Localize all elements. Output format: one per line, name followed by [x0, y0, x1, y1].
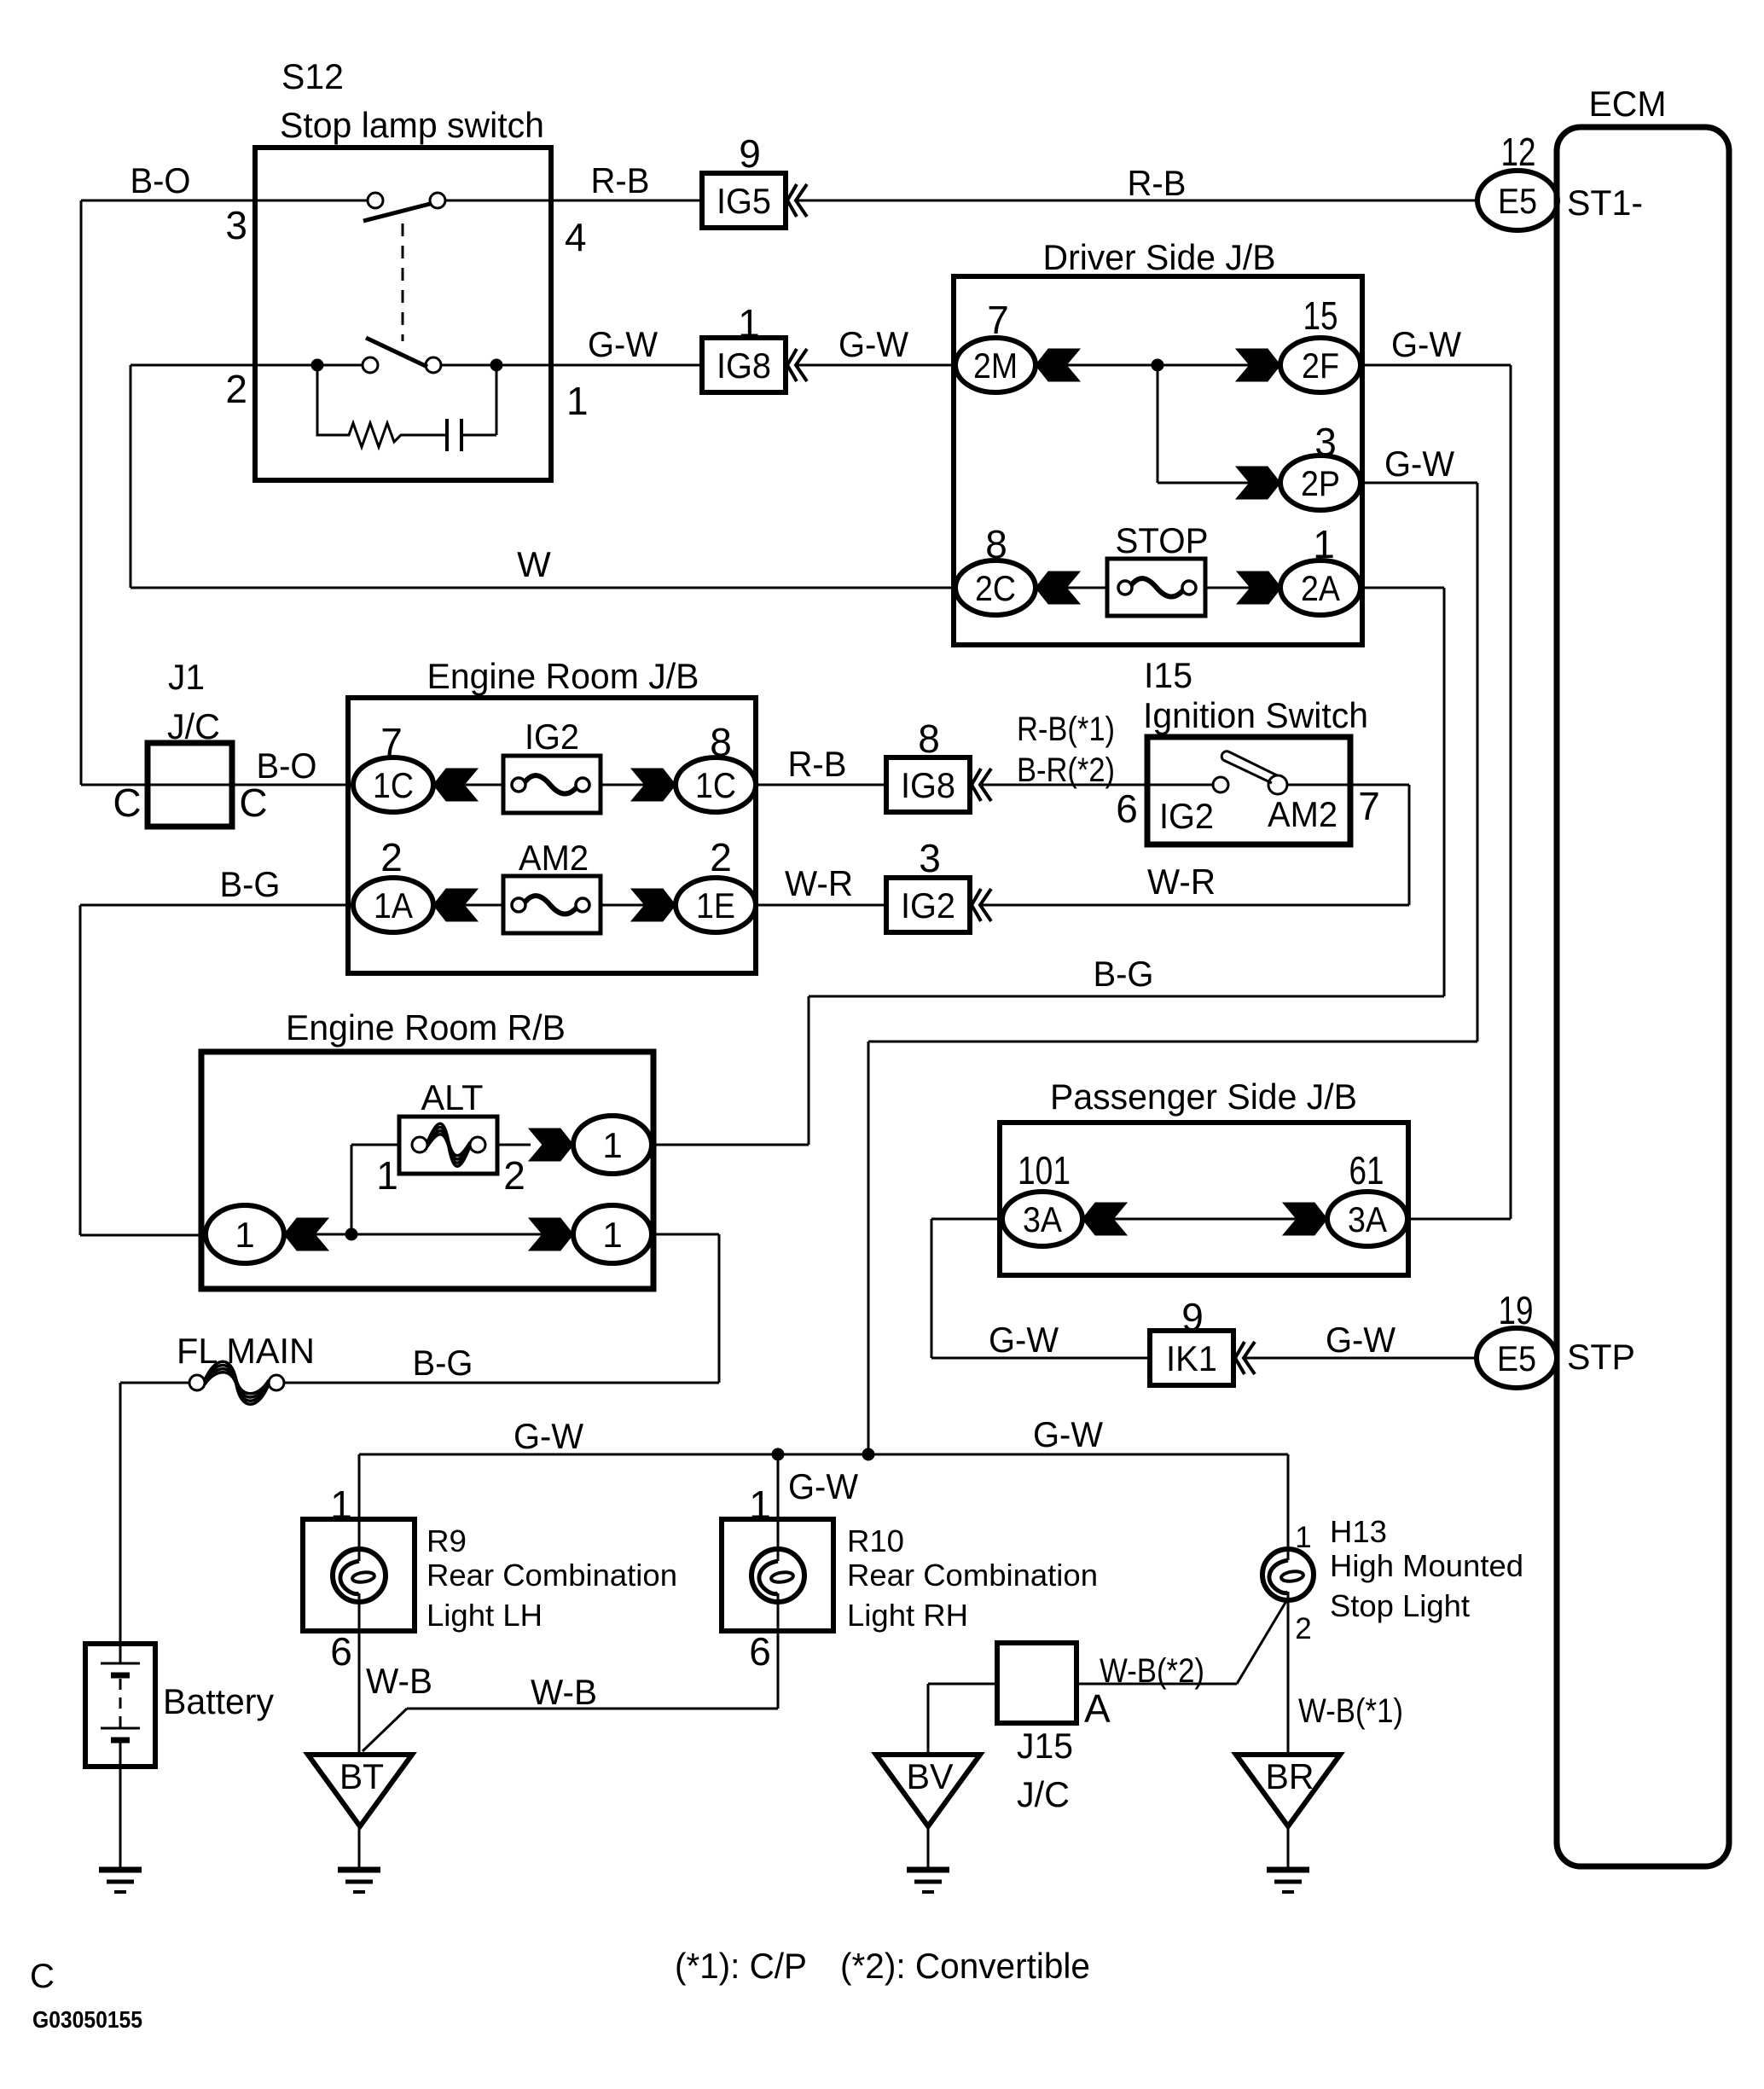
connector oval 2C: [955, 560, 1036, 615]
wire G-W 2F to vertical x1771: [1361, 364, 1511, 367]
IG8 connector box: [702, 338, 786, 392]
connector oval 3A right: [1327, 1192, 1407, 1246]
svg-text:2F: 2F: [1302, 345, 1339, 386]
svg-text:2: 2: [503, 1153, 525, 1198]
svg-text:R9: R9: [426, 1523, 467, 1558]
wire H13 pin1 drop to bulb: [1287, 1454, 1290, 1560]
svg-text:Engine Room R/B: Engine Room R/B: [286, 1007, 566, 1047]
svg-text:BR: BR: [1266, 1756, 1314, 1796]
ignition switch I15 box: [1147, 737, 1350, 844]
svg-text:B-G: B-G: [220, 864, 281, 904]
svg-text:W-B(*1): W-B(*1): [1298, 1692, 1403, 1730]
R10 rear combination light box: [722, 1519, 833, 1631]
wire ALT fuse pin2 to arrow: [497, 1144, 531, 1146]
svg-text:Driver Side J/B: Driver Side J/B: [1043, 237, 1276, 277]
ignition switch AM2 contact circle: [1268, 775, 1287, 794]
S12 upper switch lever: [363, 204, 430, 221]
wire R10 bulb to W-B row: [777, 1593, 780, 1709]
wire battery negative to ground: [119, 1740, 122, 1870]
wire R9 bulb to BT: [358, 1593, 361, 1755]
svg-text:3A: 3A: [1023, 1199, 1062, 1239]
svg-text:IG8: IG8: [717, 345, 771, 386]
svg-text:101: 101: [1018, 1148, 1071, 1192]
junction dot S12 pin1 resistor branch: [490, 359, 502, 371]
svg-text:ECM: ECM: [1589, 84, 1667, 124]
svg-text:2: 2: [380, 835, 403, 879]
fuse STOP element: [1118, 581, 1132, 595]
svg-text:W-R: W-R: [785, 863, 853, 903]
svg-text:C: C: [239, 780, 267, 825]
svg-text:(*1): C/P: (*1): C/P: [675, 1946, 807, 1986]
wire S12 pin 4 to IG5 connector (R-B): [444, 200, 702, 202]
IG2 middle chevron: [972, 889, 991, 921]
ground symbol BT: [338, 1867, 380, 1873]
svg-text:R-B(*1): R-B(*1): [1017, 711, 1115, 748]
wire B-G FL MAIN row: [120, 1382, 197, 1384]
wire B-O through junction connector J1 to Engine Room J/B 1C: [81, 784, 393, 786]
ECM connector E5 pin19 oval: [1477, 1328, 1557, 1388]
svg-text:15: 15: [1303, 293, 1338, 338]
wire W-B from R9 to R10 pin 6: [407, 1708, 778, 1710]
wire W-R from IG2 connector to ignition pin 7: [981, 904, 1409, 907]
arrow into 1C right: [631, 769, 676, 801]
fuse AM2 box: [503, 876, 601, 933]
svg-text:2: 2: [225, 367, 247, 411]
arrow into 3A right: [1283, 1203, 1327, 1235]
IG8 middle chevron: [972, 769, 991, 801]
svg-text:2M: 2M: [973, 345, 1018, 386]
wire R10 pin1 drop to bulb: [777, 1454, 780, 1561]
svg-text:3: 3: [225, 203, 247, 247]
svg-text:G-W: G-W: [514, 1416, 583, 1456]
wire Passenger J/B 3A pin101 out to left: [931, 1218, 1042, 1221]
Driver Side J/B box: [954, 276, 1362, 645]
wire B-O vertical down left side: [80, 200, 83, 785]
connector oval 3A left: [1002, 1192, 1082, 1246]
ground symbol BR: [1267, 1867, 1309, 1873]
svg-text:B-O: B-O: [131, 160, 191, 200]
svg-text:(*2): Convertible: (*2): Convertible: [840, 1946, 1090, 1986]
connector oval 2A: [1280, 560, 1361, 615]
svg-text:3A: 3A: [1348, 1199, 1387, 1239]
H13 bulb: [1262, 1549, 1314, 1600]
wire B-G from x94 to Engine J/B 1A: [80, 904, 393, 907]
wire BT triangle to ground: [358, 1826, 361, 1870]
wire BV up and into J15: [927, 1684, 930, 1755]
wire BV triangle to ground: [927, 1826, 930, 1870]
svg-text:E5: E5: [1497, 1338, 1536, 1378]
junction dot ALT branch in Engine R/B: [345, 1228, 357, 1240]
svg-text:G03050155: G03050155: [32, 2006, 142, 2033]
svg-text:J/C: J/C: [1017, 1774, 1070, 1814]
wire G-W from IG8 to Driver Side J/B 2M: [797, 364, 995, 367]
svg-text:STOP: STOP: [1116, 520, 1209, 560]
R9 bulb: [333, 1549, 386, 1602]
wire G-W vertical x1732 down to y1221: [1477, 483, 1479, 1042]
wire Ignition Switch AM2 contact to pin 7 out: [1285, 784, 1409, 786]
wire G-W 2P to vertical x1732: [1361, 482, 1477, 485]
svg-text:IG5: IG5: [717, 181, 771, 221]
connector oval 1C left: [353, 757, 433, 812]
wire S12 pin 1 row inside switch: [255, 364, 369, 367]
fusible link ALT element: [412, 1137, 427, 1152]
arrow into 2P: [1236, 467, 1280, 499]
wire Passenger J/B 3A pin61 to vertical x1771: [1407, 1218, 1511, 1221]
svg-text:ALT: ALT: [421, 1077, 484, 1117]
R9 rear combination light box: [303, 1519, 415, 1631]
svg-text:C: C: [30, 1958, 55, 1995]
svg-text:Stop Light: Stop Light: [1330, 1588, 1470, 1623]
wire H13 bulb to BR: [1287, 1592, 1290, 1755]
svg-text:12: 12: [1501, 130, 1536, 174]
svg-text:A: A: [1084, 1686, 1111, 1731]
svg-text:G-W: G-W: [1326, 1320, 1396, 1360]
battery box: [85, 1644, 155, 1767]
svg-text:6: 6: [330, 1629, 352, 1674]
svg-text:IG8: IG8: [901, 765, 955, 805]
svg-text:G-W: G-W: [1384, 444, 1454, 484]
svg-text:W-B: W-B: [366, 1661, 432, 1701]
fuse STOP box: [1107, 559, 1205, 616]
svg-text:8: 8: [918, 717, 940, 761]
arrow into 2A: [1237, 572, 1281, 604]
connector oval 1 lower-left in R/B: [206, 1205, 284, 1263]
arrow into 2C: [1036, 572, 1080, 604]
wire vertical x948 down to ALT output row: [808, 996, 810, 1145]
wire vertical x153 down to W row: [130, 365, 132, 588]
svg-text:1C: 1C: [695, 765, 736, 805]
wire G-W from S12 pin 1 to IG8 connector: [551, 364, 702, 367]
svg-text:J1: J1: [168, 657, 205, 697]
svg-text:Ignition Switch: Ignition Switch: [1143, 695, 1368, 735]
wire G-W vertical x1092 down to IK1 row: [931, 1219, 933, 1358]
svg-text:B-R(*2): B-R(*2): [1017, 751, 1115, 789]
svg-text:W: W: [517, 544, 551, 584]
junction dot G-W row at ECM STP branch: [862, 1448, 874, 1460]
wire vertical x1693 down to B-G row y1168: [1443, 588, 1446, 996]
S12 stop lamp switch box: [255, 148, 551, 480]
svg-text:G-W: G-W: [788, 1466, 858, 1506]
wire R-B from IG5 to ECM E5 pin 12: [797, 200, 1478, 202]
svg-text:Light RH: Light RH: [847, 1598, 968, 1633]
wire Engine R/B lower right oval out: [652, 1233, 719, 1236]
wire B-O from node to S12 pin 3 and into switch: [81, 200, 368, 202]
connector oval 1A: [353, 878, 433, 932]
connector oval 1 upper in R/B: [573, 1116, 652, 1174]
wire battery feed vertical x141: [119, 1383, 122, 1663]
svg-text:2C: 2C: [975, 568, 1016, 608]
svg-text:1: 1: [602, 1125, 622, 1165]
arrow into 1A: [433, 889, 478, 921]
IK1 connector box: [1150, 1331, 1233, 1385]
wire junction drop to 2P: [1157, 365, 1159, 483]
wire S12 pin 2 to left branch: [131, 364, 255, 367]
svg-text:Passenger Side J/B: Passenger Side J/B: [1050, 1076, 1357, 1117]
wire 2A out to vertical x1693: [1361, 587, 1444, 589]
S12 lower switch lever: [366, 338, 427, 367]
svg-text:1: 1: [376, 1153, 398, 1198]
svg-text:W-R: W-R: [1147, 862, 1216, 902]
junction connector J1 box: [148, 743, 232, 827]
wire vertical x1652 from ignition pin7 to W-R row: [1408, 785, 1411, 905]
svg-text:B-O: B-O: [257, 746, 317, 786]
svg-text:G-W: G-W: [1391, 324, 1461, 364]
wire ALT output row to Engine Room R/B oval: [612, 1144, 809, 1146]
IG5 chevron: [787, 184, 807, 217]
junction dot S12 pin2 resistor branch: [311, 359, 323, 371]
wire Passenger J/B internal 3A to 3A: [1042, 1218, 1367, 1221]
svg-text:R-B: R-B: [591, 160, 650, 200]
wire B-G into Engine Room R/B lower oval: [80, 1234, 245, 1237]
svg-text:High Mounted: High Mounted: [1330, 1548, 1523, 1583]
svg-text:S12: S12: [281, 56, 344, 96]
svg-text:BV: BV: [907, 1756, 954, 1796]
IG2 middle connector box: [886, 878, 970, 932]
svg-text:Engine Room J/B: Engine Room J/B: [427, 656, 699, 696]
svg-text:ST1-: ST1-: [1567, 183, 1643, 223]
wire W-R Engine J/B 1E out to IG2 connector: [756, 904, 887, 907]
svg-text:2: 2: [1295, 1612, 1311, 1645]
wire G-W vertical x1771 down to Passenger J/B 3A pin 61: [1510, 365, 1512, 1219]
svg-text:Rear Combination: Rear Combination: [426, 1558, 677, 1593]
wire R9 pin1 drop to bulb: [358, 1454, 361, 1561]
svg-text:6: 6: [749, 1629, 771, 1674]
wire G-W from IK1 to ECM E5 pin 19 STP: [1245, 1357, 1478, 1360]
wire Driver J/B internal 2C to STOP fuse to 2A: [955, 587, 1125, 589]
svg-text:W-B(*2): W-B(*2): [1100, 1652, 1204, 1690]
ignition switch lever: [1221, 751, 1277, 783]
arrow out of lower-left oval: [284, 1218, 328, 1250]
S12 mechanical link dashed line: [402, 223, 404, 341]
svg-text:AM2: AM2: [1268, 794, 1338, 834]
svg-text:9: 9: [739, 131, 761, 176]
wire G-W vertical x1018 down to stop light feed row: [867, 1042, 870, 1454]
ground triangle BR: [1236, 1755, 1340, 1826]
svg-text:I15: I15: [1144, 655, 1192, 695]
connector oval 2P: [1280, 456, 1361, 510]
svg-text:IK1: IK1: [1166, 1338, 1217, 1378]
junction connector J15 box: [997, 1643, 1076, 1723]
Engine Room R/B box: [201, 1052, 653, 1289]
svg-text:6: 6: [1116, 786, 1138, 831]
wire G-W stop light feed row y1705: [359, 1454, 1288, 1456]
wire G-W horizontal y1221 to x1018: [868, 1041, 1477, 1043]
svg-text:2: 2: [710, 835, 732, 879]
svg-text:E5: E5: [1498, 181, 1537, 221]
arrow into 2F: [1236, 349, 1280, 381]
svg-text:C: C: [113, 780, 141, 825]
svg-text:Stop lamp switch: Stop lamp switch: [280, 105, 544, 145]
fuse AM2 element: [512, 898, 525, 912]
svg-text:1: 1: [235, 1215, 254, 1255]
svg-text:1E: 1E: [696, 885, 735, 926]
wire Engine J/B row2 1A-AM2 fuse-1E: [393, 904, 519, 907]
svg-text:Battery: Battery: [163, 1681, 274, 1721]
R10 bulb: [751, 1549, 804, 1602]
svg-text:Light LH: Light LH: [426, 1598, 543, 1633]
capacitor C inside S12: [445, 419, 449, 451]
junction dot G-W row at R10 feed: [772, 1448, 784, 1460]
ground triangle BV: [876, 1755, 980, 1826]
S12 upper switch contact circles pin3-pin4: [368, 193, 383, 208]
S12 resistor branch right leg: [496, 365, 498, 435]
wire R-B/B-R from IG8 connector to Ignition Switch IG2 contact: [981, 784, 1214, 786]
arrow into 2M: [1036, 349, 1080, 381]
arrow into R/B upper oval: [529, 1129, 573, 1161]
svg-text:IG2: IG2: [525, 717, 579, 757]
wire ALT fuse pin1 branch: [351, 1144, 399, 1146]
svg-text:R-B: R-B: [788, 744, 847, 784]
svg-text:1C: 1C: [373, 765, 414, 805]
wire BR triangle to ground: [1287, 1826, 1290, 1870]
svg-text:IG2: IG2: [901, 885, 955, 926]
svg-text:H13: H13: [1330, 1514, 1387, 1549]
svg-text:R10: R10: [847, 1523, 904, 1558]
svg-text:AM2: AM2: [519, 838, 589, 878]
S12 lower switch contact circles pin2-pin1: [363, 357, 378, 373]
svg-text:3: 3: [919, 836, 941, 880]
svg-text:BT: BT: [339, 1756, 384, 1796]
fuse IG2 box: [503, 756, 601, 813]
arrow into 3A left: [1082, 1203, 1127, 1235]
connector oval 1C right: [676, 757, 756, 812]
Engine Room J/B box: [348, 698, 756, 973]
IK1 chevron: [1235, 1342, 1255, 1374]
ECM connector E5 pin12 oval: [1477, 171, 1558, 230]
svg-text:61: 61: [1349, 1148, 1384, 1192]
svg-text:STP: STP: [1567, 1337, 1635, 1377]
svg-text:4: 4: [565, 215, 587, 259]
wire W from S12 pin 2 branch to Driver Side J/B 2C: [131, 587, 995, 589]
svg-text:1: 1: [602, 1215, 622, 1255]
ground symbol BV: [907, 1867, 949, 1873]
svg-text:R-B: R-B: [1128, 163, 1187, 203]
wire Engine R/B lower row between ovals: [245, 1233, 612, 1236]
connector oval 1E: [676, 878, 756, 932]
wire vertical x843 down to FL MAIN row: [718, 1234, 721, 1383]
svg-text:B-G: B-G: [413, 1343, 473, 1383]
svg-text:J15: J15: [1017, 1726, 1073, 1766]
svg-text:IG2: IG2: [1159, 796, 1214, 836]
svg-text:7: 7: [1358, 784, 1380, 828]
svg-text:2P: 2P: [1301, 463, 1340, 503]
wire Engine Room J/B row1 1C-IG2 fuse-1C: [393, 784, 519, 786]
battery plates symbol: [101, 1662, 140, 1665]
wire B-G vertical x94 down: [79, 905, 82, 1235]
svg-text:1: 1: [566, 379, 589, 423]
svg-text:1A: 1A: [374, 885, 413, 926]
wire W-B diagonal into BT: [363, 1709, 407, 1751]
wire R-B Engine J/B 1C out to IG8 connector: [756, 784, 887, 786]
connector oval 1 lower-right in R/B: [573, 1205, 652, 1263]
IG8 chevron: [787, 349, 807, 381]
svg-text:Rear Combination: Rear Combination: [847, 1558, 1098, 1593]
svg-text:G-W: G-W: [989, 1320, 1059, 1360]
wire B-G horizontal y1168: [809, 995, 1444, 998]
fusible link ALT box: [399, 1117, 497, 1174]
IG8 middle connector box: [886, 757, 970, 812]
svg-text:B-G: B-G: [1094, 954, 1154, 994]
svg-text:G-W: G-W: [1033, 1414, 1103, 1454]
arrow into 1C left: [433, 769, 478, 801]
IG5 connector box: [702, 173, 786, 228]
Passenger Side J/B box: [1000, 1123, 1408, 1275]
ground symbol battery: [99, 1867, 142, 1873]
arrow into lower-right oval: [529, 1218, 573, 1250]
ground triangle BT: [308, 1755, 412, 1826]
wire Driver J/B internal 2M to 2F with junction: [955, 364, 1320, 367]
ECM box: [1557, 127, 1729, 1866]
svg-text:2A: 2A: [1301, 568, 1340, 608]
junction dot Driver J/B 2M-2F-2P: [1152, 359, 1163, 371]
connector oval 2M: [955, 338, 1036, 392]
connector oval 2F: [1280, 338, 1361, 392]
wire W-B(*2) from J15 to H13 pin 2: [1076, 1683, 1237, 1686]
S12 resistor-capacitor branch wiring: [317, 365, 447, 447]
ignition switch IG2 contact circle: [1213, 777, 1228, 792]
svg-text:G-W: G-W: [588, 324, 658, 364]
arrow into 1E: [631, 889, 676, 921]
svg-text:G-W: G-W: [838, 324, 908, 364]
svg-text:W-B: W-B: [531, 1672, 597, 1712]
wire G-W from x1092 to IK1 connector: [931, 1357, 1151, 1360]
fusible link FL MAIN element: [189, 1375, 205, 1390]
svg-text:FL MAIN: FL MAIN: [177, 1331, 315, 1371]
fuse IG2 element: [512, 778, 525, 792]
